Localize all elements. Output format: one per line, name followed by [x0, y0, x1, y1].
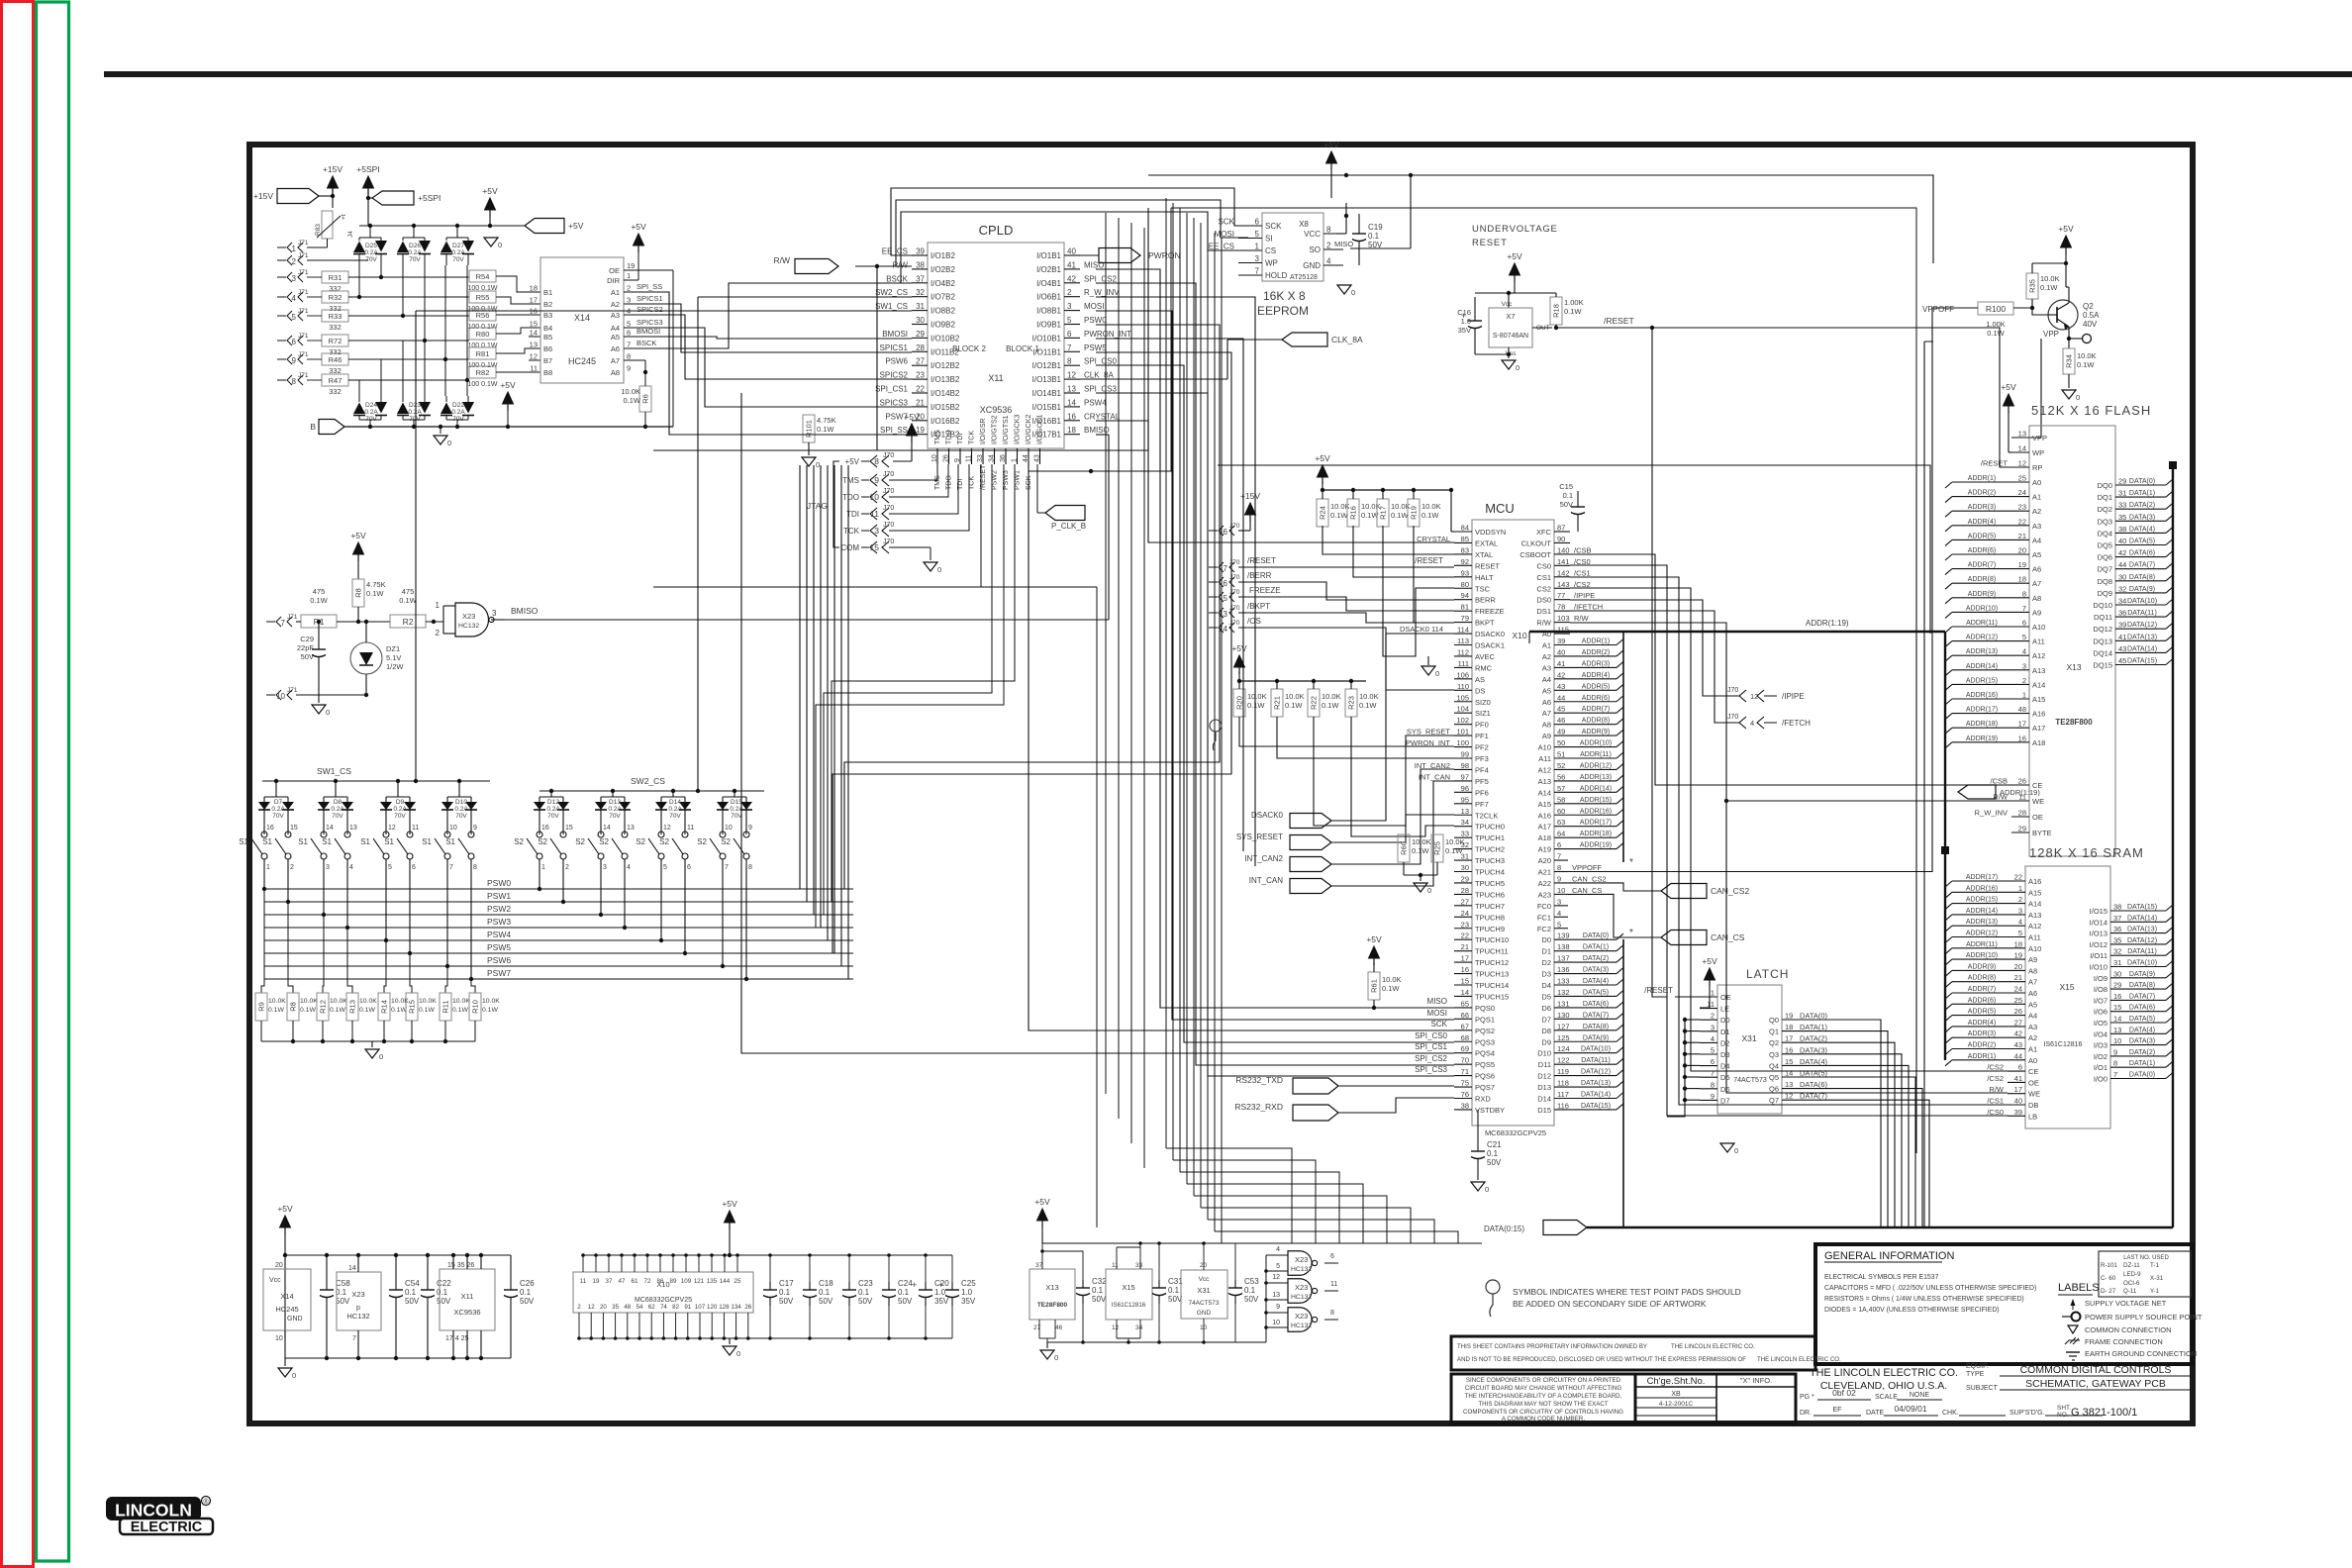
- svg-text:475: 475: [402, 587, 415, 596]
- svg-text:1: 1: [627, 271, 631, 280]
- resistor R55 100 0.1W: [468, 291, 498, 313]
- svg-text:A5: A5: [2032, 550, 2041, 559]
- svg-text:11: 11: [412, 825, 419, 832]
- svg-text:9: 9: [627, 364, 631, 373]
- svg-text:D26: D26: [409, 243, 421, 249]
- svg-text:R47: R47: [329, 376, 343, 385]
- svg-text:I/O10B1: I/O10B1: [1032, 334, 1062, 343]
- svg-text:SUPPLY VOLTAGE NET: SUPPLY VOLTAGE NET: [2085, 1299, 2167, 1308]
- ground bypass group 2: [723, 1338, 740, 1358]
- svg-text:A12: A12: [1538, 765, 1551, 774]
- red page edge stripe: [2, 2, 34, 1567]
- svg-text:18: 18: [530, 284, 538, 293]
- svg-text:TE28F800: TE28F800: [2055, 718, 2093, 727]
- svg-text:80: 80: [1461, 580, 1469, 589]
- svg-text:85: 85: [1461, 535, 1469, 543]
- svg-text:6: 6: [1224, 579, 1228, 588]
- svg-text:DATA(8): DATA(8): [2129, 574, 2155, 581]
- svg-text:/RESET: /RESET: [1247, 556, 1276, 565]
- bypass X15 IS61C12816: [1106, 1241, 1152, 1344]
- resistor R56 100 0.1W: [468, 309, 498, 331]
- svg-text:PQS1: PQS1: [1475, 1015, 1495, 1024]
- svg-text:35V: 35V: [934, 1297, 949, 1306]
- svg-text:4: 4: [349, 864, 353, 871]
- resistor R61 10.0K: [1368, 972, 1402, 1010]
- svg-text:0.1W: 0.1W: [391, 1007, 407, 1014]
- svg-text:81: 81: [1461, 603, 1469, 612]
- svg-text:A1: A1: [2028, 1045, 2037, 1054]
- svg-text:A2: A2: [1542, 652, 1551, 661]
- svg-text:105: 105: [1456, 693, 1469, 702]
- svg-text:THIS DIAGRAM MAY NOT SHOW THE: THIS DIAGRAM MAY NOT SHOW THE EXACT: [1478, 1401, 1608, 1408]
- svg-text:DZ-11: DZ-11: [2123, 1262, 2140, 1269]
- svg-text:141: 141: [1557, 557, 1570, 566]
- svg-text:A6: A6: [2032, 565, 2041, 574]
- svg-text:A11: A11: [2028, 933, 2041, 942]
- svg-text:78: 78: [1557, 603, 1565, 612]
- svg-text:117: 117: [1557, 1090, 1569, 1099]
- nand gate X23 pins 4 5 6: [1266, 1246, 1338, 1275]
- svg-text:19: 19: [1785, 1012, 1793, 1021]
- svg-text:13: 13: [1272, 1292, 1280, 1299]
- svg-text:AND IS NOT TO BE REPRODUCED, D: AND IS NOT TO BE REPRODUCED, DISCLOSED O…: [1457, 1356, 1746, 1363]
- svg-text:0.1W: 0.1W: [399, 596, 417, 605]
- svg-text:18: 18: [1067, 426, 1076, 435]
- svg-text:39: 39: [2014, 1108, 2022, 1117]
- capacitor C53 0.1 50V: [1228, 1243, 1259, 1342]
- svg-text:128: 128: [719, 1304, 730, 1311]
- svg-text:0: 0: [1435, 669, 1439, 678]
- capacitor C32 0.1 50V: [1042, 1251, 1107, 1344]
- svg-text:+5V: +5V: [2001, 382, 2016, 392]
- svg-text:A13: A13: [2028, 911, 2041, 920]
- svg-text:RS232_RXD: RS232_RXD: [1234, 1102, 1283, 1112]
- switch to PSW wiring: [262, 871, 748, 981]
- svg-text:9: 9: [1711, 1092, 1715, 1101]
- svg-text:A6: A6: [2028, 989, 2037, 998]
- svg-text:7: 7: [281, 619, 286, 628]
- svg-text:14: 14: [603, 825, 611, 832]
- wire OE to B rail: [672, 270, 674, 427]
- svg-text:R61: R61: [1370, 979, 1379, 993]
- svg-text:A4: A4: [1542, 675, 1551, 684]
- svg-text:13: 13: [1067, 385, 1076, 394]
- svg-text:D12: D12: [547, 799, 559, 806]
- svg-text:CAN_CS: CAN_CS: [1572, 886, 1602, 895]
- svg-text:3: 3: [1711, 1023, 1715, 1031]
- svg-text:0.1: 0.1: [1487, 1149, 1499, 1158]
- svg-text:1: 1: [1711, 989, 1715, 998]
- connector J71 pin 9: [277, 351, 309, 365]
- supply arrow +5V at latch: [1700, 956, 1717, 1008]
- svg-text:I/O2: I/O2: [2094, 1052, 2107, 1061]
- svg-text:49: 49: [1557, 728, 1565, 736]
- svg-text:7: 7: [1224, 564, 1228, 573]
- svg-text:R21: R21: [1273, 696, 1282, 710]
- svg-text:4: 4: [292, 294, 297, 303]
- svg-text:D1: D1: [1720, 1028, 1730, 1036]
- svg-text:S2: S2: [636, 837, 645, 846]
- svg-text:A16: A16: [2028, 877, 2041, 886]
- svg-text:ADDR(11): ADDR(11): [1580, 751, 1612, 758]
- svg-text:D3: D3: [1720, 1050, 1730, 1059]
- svg-text:I/O/GTS1: I/O/GTS1: [1003, 415, 1010, 444]
- resistor R35 10.0K: [2026, 261, 2068, 310]
- svg-text:13: 13: [2018, 430, 2026, 439]
- top horizontal rule: [104, 71, 2352, 77]
- svg-text:DQ15: DQ15: [2093, 661, 2112, 670]
- svg-text:THIS SHEET CONTAINS PROPRIETAR: THIS SHEET CONTAINS PROPRIETARY INFORMAT…: [1457, 1343, 1647, 1350]
- wire bus from X14 A6 to CPLD BSCK: [624, 283, 912, 348]
- svg-text:VPP: VPP: [2043, 330, 2059, 339]
- svg-text:C25: C25: [961, 1279, 976, 1288]
- svg-text:0.2A: 0.2A: [668, 806, 682, 813]
- svg-text:144: 144: [720, 1278, 731, 1285]
- svg-text:+15V: +15V: [323, 164, 343, 174]
- svg-text:TPUCH6: TPUCH6: [1475, 890, 1505, 899]
- svg-text:D13: D13: [609, 799, 621, 806]
- svg-text:ADDR(1): ADDR(1): [1968, 1053, 1996, 1060]
- svg-text:+15V: +15V: [253, 191, 273, 201]
- svg-text:/BERR: /BERR: [1247, 571, 1272, 580]
- svg-text:37: 37: [916, 274, 925, 283]
- svg-text:A1: A1: [2032, 493, 2041, 502]
- svg-text:DATA(10): DATA(10): [2127, 960, 2157, 967]
- svg-text:ELECTRICAL SYMBOLS PER E1537: ELECTRICAL SYMBOLS PER E1537: [1824, 1274, 1939, 1281]
- svg-text:BYTE: BYTE: [2032, 829, 2052, 837]
- power flag +15V: [253, 189, 335, 204]
- net /RESET from X7: [1556, 316, 1688, 328]
- ADDR trunk at MCU: [1623, 632, 1633, 868]
- bypass group 3 rails: [1042, 1243, 1266, 1348]
- svg-text:+5V: +5V: [1366, 934, 1382, 944]
- svg-text:DQ4: DQ4: [2098, 529, 2112, 538]
- svg-text:17 4 25: 17 4 25: [445, 1335, 468, 1342]
- net label SW2_CS: [539, 776, 764, 791]
- svg-text:A12: A12: [2032, 651, 2045, 660]
- MCU X10 MC68332GCPV25: [1406, 501, 1603, 1137]
- svg-text:DATA(10): DATA(10): [1581, 1046, 1611, 1053]
- svg-text:6: 6: [1330, 1253, 1334, 1260]
- svg-text:I/O1: I/O1: [2094, 1063, 2107, 1072]
- svg-text:8: 8: [1711, 1080, 1715, 1089]
- svg-text:R72: R72: [329, 337, 343, 345]
- svg-text:41: 41: [1067, 260, 1076, 269]
- svg-text:17: 17: [1785, 1034, 1793, 1043]
- svg-text:6: 6: [1557, 840, 1561, 849]
- svg-text:I/O10: I/O10: [2090, 963, 2107, 972]
- svg-text:5: 5: [663, 864, 667, 871]
- svg-text:4.75K: 4.75K: [817, 416, 836, 425]
- svg-text:J71: J71: [298, 252, 309, 259]
- svg-text:0: 0: [1054, 1353, 1058, 1362]
- svg-text:3: 3: [874, 526, 879, 536]
- svg-text:B8: B8: [543, 368, 552, 377]
- svg-text:A5: A5: [1542, 686, 1551, 695]
- svg-text:I/O14: I/O14: [2090, 918, 2107, 927]
- svg-text:SPICS2: SPICS2: [637, 305, 663, 314]
- svg-text:TPUCH4: TPUCH4: [1475, 868, 1505, 877]
- svg-text:DATA(0): DATA(0): [1800, 1012, 1828, 1021]
- svg-text:I/O13B1: I/O13B1: [1032, 375, 1062, 384]
- svg-text:0: 0: [292, 1371, 296, 1380]
- svg-text:7: 7: [1711, 1069, 1715, 1078]
- svg-text:COM: COM: [840, 543, 859, 552]
- capacitor C16 1.0 35V: [1457, 293, 1509, 354]
- general information box: [1815, 1244, 2193, 1364]
- svg-text:X15: X15: [2059, 982, 2074, 992]
- svg-text:74: 74: [660, 1304, 667, 1311]
- svg-text:DQ6: DQ6: [2098, 553, 2112, 562]
- svg-text:ADDR(9): ADDR(9): [1582, 729, 1610, 735]
- svg-text:A17: A17: [1538, 823, 1551, 832]
- switch S2 pins 9/8: [721, 820, 752, 871]
- wire VPP to flash: [2011, 339, 2069, 438]
- svg-text:PQS2: PQS2: [1475, 1027, 1495, 1035]
- svg-text:A3: A3: [2028, 1023, 2037, 1031]
- svg-text:B7: B7: [543, 356, 552, 365]
- connector J71 pin 1: [277, 240, 309, 253]
- svg-text:DQ3: DQ3: [2098, 517, 2112, 526]
- svg-text:HC132: HC132: [1291, 1323, 1312, 1329]
- svg-text:I/O2B1: I/O2B1: [1036, 265, 1061, 274]
- svg-text:LABELS: LABELS: [2058, 1282, 2100, 1294]
- net label SW1_CS: [262, 766, 490, 781]
- svg-text:ADDR(17): ADDR(17): [1580, 820, 1612, 827]
- svg-text:20: 20: [2014, 962, 2022, 971]
- svg-text:0.1W: 0.1W: [1330, 511, 1348, 520]
- svg-text:ADDR(8): ADDR(8): [1582, 718, 1610, 725]
- svg-text:6: 6: [412, 864, 416, 871]
- svg-text:1/2W: 1/2W: [386, 662, 404, 671]
- wire /RESET down to latch OE: [1650, 326, 1654, 871]
- svg-text:A10: A10: [2032, 623, 2045, 632]
- svg-text:14: 14: [1785, 1069, 1793, 1078]
- proprietary note box: [1451, 1336, 1841, 1370]
- svg-text:50V: 50V: [336, 1297, 350, 1306]
- svg-text:RXD: RXD: [1475, 1095, 1491, 1104]
- svg-text:SPI_SS: SPI_SS: [637, 282, 662, 291]
- svg-text:PSW2: PSW2: [487, 904, 511, 914]
- svg-text:13: 13: [627, 825, 635, 832]
- ground below resistor bank: [365, 1049, 383, 1061]
- switch S2 pins 10/7: [697, 820, 733, 871]
- svg-text:J71: J71: [298, 333, 309, 340]
- svg-text:D15: D15: [1537, 1106, 1551, 1115]
- svg-text:120: 120: [707, 1304, 718, 1311]
- wire bus from X14 A3 to CPLD SPICS2: [624, 315, 912, 379]
- bypass X31 74ACT573: [1181, 1241, 1227, 1344]
- wire SCK bus: [1029, 208, 1916, 1030]
- svg-text:WE: WE: [2032, 797, 2044, 806]
- svg-text:DQ14: DQ14: [2093, 648, 2112, 657]
- svg-text:Vcc: Vcc: [1199, 1276, 1211, 1283]
- svg-text:0.1W: 0.1W: [310, 596, 328, 605]
- svg-text:SPI_SS: SPI_SS: [880, 426, 908, 435]
- svg-text:HC132: HC132: [1291, 1266, 1312, 1273]
- wire /CSB to flash CE: [1570, 554, 2011, 785]
- labels legend: [2058, 1282, 2203, 1360]
- svg-text:A1: A1: [611, 288, 620, 297]
- svg-text:10.0K: 10.0K: [1285, 692, 1305, 701]
- svg-text:5: 5: [1067, 316, 1072, 325]
- svg-text:6: 6: [1711, 1057, 1715, 1066]
- svg-text:22: 22: [916, 385, 925, 394]
- power flag +5V: [490, 219, 584, 234]
- svg-text:PSW6: PSW6: [487, 955, 511, 965]
- wire PSW5 from CPLD: [833, 352, 1231, 953]
- svg-text:10: 10: [725, 825, 733, 832]
- svg-text:PF5: PF5: [1475, 777, 1489, 786]
- net flag RS232_TXD: [1235, 1075, 1454, 1094]
- wire CRYSTAL CPLD to MCU: [1096, 421, 1454, 542]
- svg-text:I/O11: I/O11: [2090, 951, 2107, 960]
- capacitor C31 0.1 50V: [1152, 1241, 1183, 1344]
- svg-text:PSW0: PSW0: [487, 878, 511, 888]
- switch S1 pins 13/4: [322, 820, 357, 871]
- svg-text:NONE: NONE: [1910, 1392, 1930, 1399]
- svg-text:43: 43: [1034, 454, 1041, 462]
- svg-text:MOSI: MOSI: [1427, 1009, 1447, 1018]
- SW2_CS riser: [696, 297, 912, 793]
- supply arrow +5V bypass group 2: [722, 1199, 737, 1255]
- svg-text:12: 12: [663, 825, 671, 832]
- svg-text:92: 92: [1461, 557, 1469, 566]
- svg-text:16: 16: [1461, 965, 1469, 974]
- svg-text:FRAME CONNECTION: FRAME CONNECTION: [2085, 1337, 2163, 1346]
- svg-text:ADDR(4): ADDR(4): [1968, 519, 1996, 526]
- svg-text:A18: A18: [1538, 833, 1551, 842]
- svg-text:TCK: TCK: [969, 476, 976, 490]
- svg-text:16: 16: [266, 825, 274, 832]
- resistor R46 332: [307, 353, 469, 375]
- svg-text:C24: C24: [898, 1279, 913, 1288]
- svg-text:PSW4: PSW4: [487, 930, 511, 939]
- net flag SYS_RESET: [1236, 735, 1454, 850]
- left data verticals to latch region: [1166, 198, 1482, 1243]
- svg-text:A12: A12: [2028, 922, 2041, 931]
- ground right of D27: [484, 238, 502, 249]
- svg-text:5: 5: [1255, 230, 1260, 239]
- svg-text:30: 30: [2118, 572, 2126, 581]
- svg-text:0.1W: 0.1W: [1285, 701, 1303, 710]
- svg-text:10.0K: 10.0K: [359, 998, 377, 1005]
- svg-text:/FETCH: /FETCH: [1782, 719, 1811, 728]
- svg-text:SPI_CS2: SPI_CS2: [1415, 1054, 1447, 1063]
- net flag CLK_8A: [1080, 333, 1363, 379]
- svg-text:TPUCH3: TPUCH3: [1475, 856, 1505, 865]
- connector J70 pin 13 /BKPT: [1209, 602, 1454, 623]
- svg-text:J70: J70: [883, 539, 894, 545]
- ground below JTAG COM: [924, 547, 941, 574]
- svg-text:X11: X11: [988, 373, 1003, 383]
- svg-text:SW2_CS: SW2_CS: [631, 776, 665, 786]
- green page edge stripe: [37, 2, 69, 1561]
- svg-text:I/O3: I/O3: [2094, 1041, 2107, 1050]
- svg-text:A4: A4: [2032, 536, 2041, 544]
- svg-text:I/O2B2: I/O2B2: [931, 265, 955, 274]
- MCU data pins D0-D15 to bus: [1537, 931, 1623, 1115]
- svg-text:AS: AS: [1475, 675, 1485, 684]
- svg-text:8: 8: [1326, 226, 1331, 235]
- svg-text:113: 113: [1457, 637, 1469, 645]
- svg-text:ADDR(7): ADDR(7): [1968, 986, 1996, 993]
- svg-text:J4: J4: [347, 231, 354, 238]
- svg-text:FREEZE: FREEZE: [1249, 586, 1281, 595]
- svg-text:DATA(12): DATA(12): [2127, 622, 2157, 629]
- resistor R100 1.00K: [1922, 302, 2049, 338]
- svg-text:87: 87: [1557, 524, 1565, 533]
- svg-text:31: 31: [2113, 958, 2121, 967]
- svg-text:1: 1: [1255, 243, 1260, 251]
- svg-text:R33: R33: [329, 312, 343, 321]
- svg-text:VPPOFF: VPPOFF: [1922, 305, 1954, 314]
- svg-text:512K X 16 FLASH: 512K X 16 FLASH: [2031, 403, 2151, 418]
- switch S1 pins 15/2: [262, 820, 298, 871]
- resistor R33 332: [307, 310, 469, 332]
- svg-text:TPUCH0: TPUCH0: [1475, 823, 1505, 832]
- svg-text:38: 38: [916, 260, 925, 269]
- svg-text:/CSB: /CSB: [1990, 777, 2008, 786]
- svg-text:I/O12B1: I/O12B1: [1032, 361, 1062, 370]
- wire /CS2 to sram CE: [1570, 588, 2008, 1071]
- svg-text:I/O8B1: I/O8B1: [1036, 307, 1061, 316]
- svg-text:26: 26: [744, 1304, 751, 1311]
- svg-text:HC132: HC132: [458, 623, 479, 630]
- svg-text:FC0: FC0: [1537, 902, 1551, 911]
- wire SPI_CS0 bus: [1096, 365, 1454, 1042]
- svg-text:24: 24: [1461, 909, 1469, 918]
- svg-text:S2: S2: [538, 837, 547, 846]
- svg-text:DQ2: DQ2: [2098, 505, 2112, 514]
- svg-text:ADDR(3): ADDR(3): [1968, 1030, 1996, 1037]
- switch S1 pins 12/5: [360, 820, 396, 871]
- supply arrow +5V above R8: [350, 531, 366, 579]
- svg-text:C54: C54: [405, 1279, 420, 1288]
- svg-text:TPUCH10: TPUCH10: [1475, 935, 1509, 944]
- svg-text:/RESET: /RESET: [1981, 459, 2009, 468]
- svg-text:X10: X10: [1512, 631, 1526, 640]
- svg-text:DATA(1): DATA(1): [2129, 490, 2155, 497]
- wire: [319, 665, 366, 703]
- svg-text:®: ®: [203, 1498, 209, 1506]
- svg-text:+5V: +5V: [722, 1199, 737, 1209]
- svg-text:ADDR(14): ADDR(14): [1966, 908, 1998, 915]
- nand gate input trunk: [1264, 1255, 1268, 1342]
- svg-text:A3: A3: [1542, 663, 1551, 672]
- svg-text:70V: 70V: [669, 813, 681, 820]
- svg-text:R32: R32: [329, 293, 343, 302]
- svg-text:BSCK: BSCK: [886, 274, 908, 283]
- resistor R34 10.0K: [2063, 348, 2097, 388]
- svg-text:8: 8: [627, 352, 631, 361]
- svg-text:+5V: +5V: [1323, 140, 1339, 149]
- svg-text:17: 17: [1461, 954, 1469, 963]
- svg-text:0.5A: 0.5A: [2083, 311, 2100, 320]
- supply arrow +5V: [482, 186, 498, 228]
- svg-text:DATA(6): DATA(6): [1800, 1080, 1828, 1089]
- svg-text:PWRON: PWRON: [1148, 250, 1181, 260]
- svg-text:CS: CS: [1265, 246, 1276, 255]
- svg-text:S1: S1: [262, 837, 272, 846]
- svg-text:91: 91: [684, 1304, 691, 1311]
- svg-text:GENERAL INFORMATION: GENERAL INFORMATION: [1824, 1250, 1954, 1262]
- svg-text:8: 8: [1330, 1310, 1334, 1317]
- ground below C21: [1471, 1182, 1489, 1194]
- supply arrow +15V near J70: [1238, 491, 1260, 531]
- svg-text:C18: C18: [819, 1279, 833, 1288]
- supply arrow +5V JTAG: [893, 412, 920, 461]
